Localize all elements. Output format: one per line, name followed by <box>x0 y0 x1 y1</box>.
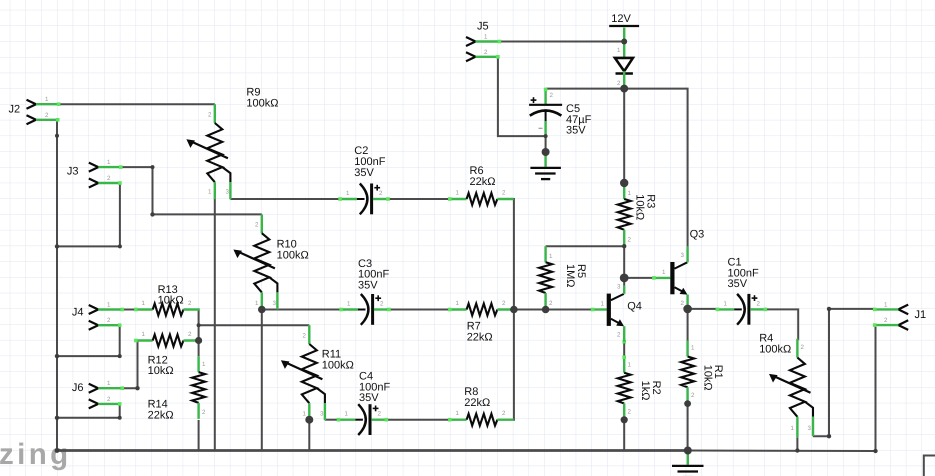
wire R9 pin3 to C2 pin1 <box>230 198 340 200</box>
wire tee to R11 pin2 <box>199 324 310 326</box>
joint J3 corner <box>151 165 155 169</box>
resistor R12 10k <box>134 331 200 377</box>
ground (C5) <box>530 152 561 179</box>
junction R11 pin1 <box>305 416 313 424</box>
svg-text:100kΩ: 100kΩ <box>246 97 278 109</box>
joint R4 pin1 bus <box>795 448 799 452</box>
svg-text:2: 2 <box>379 190 383 197</box>
wire Q4 emitter to R2 pin1 <box>623 342 625 357</box>
svg-text:2: 2 <box>628 409 632 416</box>
svg-text:2: 2 <box>107 396 111 403</box>
wire R11 pin1 down to ground bus <box>308 420 310 451</box>
svg-text:1: 1 <box>107 380 111 387</box>
wire Q4 collector to Q3 base <box>624 277 654 279</box>
junction R10 pin1 <box>258 306 266 314</box>
svg-text:1: 1 <box>484 34 488 41</box>
svg-text:1: 1 <box>601 301 605 308</box>
resistor R2 1k <box>618 340 662 420</box>
transistor Q3 <box>652 229 704 309</box>
wire R4 pin1 to ground bus <box>796 438 798 451</box>
svg-text:2: 2 <box>502 300 506 307</box>
svg-text:1: 1 <box>142 331 146 338</box>
connector J1 <box>873 301 926 330</box>
wire diode cathode to C5 and Q3 collector <box>546 89 688 247</box>
svg-text:1: 1 <box>45 96 49 103</box>
resistor R5 1M <box>539 246 587 309</box>
potentiometer R4 100k <box>759 333 813 438</box>
svg-text:1: 1 <box>724 300 728 307</box>
svg-text:2: 2 <box>208 112 212 119</box>
joint left rail c <box>55 354 59 358</box>
connector J3 <box>67 159 123 187</box>
resistor R14 22k <box>148 356 206 421</box>
svg-text:1: 1 <box>662 269 666 276</box>
joint J1 pin1 corner <box>827 307 831 311</box>
wire C3 pin2 to R7 pin1 <box>389 309 451 311</box>
wire R6 pin2 down to R8 pin2 <box>512 199 515 420</box>
wire J3 pin1 to bend <box>121 167 153 214</box>
resistor R1 10k <box>681 341 724 404</box>
junction R3 top <box>620 179 628 187</box>
joint R1 pin2 <box>684 400 691 407</box>
svg-text:2: 2 <box>45 112 49 119</box>
svg-text:J3: J3 <box>67 166 79 178</box>
capacitor C3 100nF <box>339 258 391 325</box>
svg-text:2: 2 <box>107 175 111 182</box>
joint J3 bend <box>150 212 154 216</box>
joint J6 pin1 <box>135 386 139 390</box>
wire J4 pin1 to R13 pin1 <box>122 309 136 311</box>
svg-text:1: 1 <box>202 361 206 368</box>
svg-text:22kΩ: 22kΩ <box>464 397 490 409</box>
wire J5 pin1 to 12V rail <box>499 41 624 43</box>
junction Q4 collector / Q3 base <box>620 274 629 283</box>
wire R14 pin2 to ground bus <box>198 420 200 451</box>
wire C1 pin2 to R4 pin2 <box>765 309 798 340</box>
wire J3 pin2 to left rail <box>57 183 120 246</box>
joint R4 pin3 corner <box>827 434 831 438</box>
transistor Q4 <box>591 278 642 342</box>
svg-text:2: 2 <box>691 392 695 399</box>
svg-text:10kΩ: 10kΩ <box>148 365 174 377</box>
potentiometer R11 100k <box>281 325 354 420</box>
capacitor C2 100nF <box>338 145 390 214</box>
svg-text:1: 1 <box>346 190 350 197</box>
joint R11 tee <box>197 323 201 327</box>
joint J4 rail <box>118 354 122 358</box>
svg-text:Q4: Q4 <box>627 301 642 313</box>
svg-text:1: 1 <box>208 189 212 196</box>
wire R10 junction to C3 pin1 <box>262 309 341 311</box>
svg-text:1: 1 <box>628 362 632 369</box>
wire J4 pin2 to left rail <box>57 325 120 356</box>
junction R5 pin2 <box>542 306 550 314</box>
resistor R6 22k <box>448 165 514 205</box>
connector J5 <box>466 21 501 62</box>
svg-text:1: 1 <box>347 301 351 308</box>
svg-text:1: 1 <box>617 47 621 54</box>
connector J2 <box>9 96 61 124</box>
wire R3 pin2 to Q4 collector <box>623 246 625 278</box>
svg-text:100kΩ: 100kΩ <box>322 359 354 371</box>
svg-text:2: 2 <box>255 222 259 229</box>
ground bus wire <box>57 449 688 452</box>
joint J6 pin2 <box>118 416 122 420</box>
joint left rail a <box>55 134 59 138</box>
wire J2 pin1 to R9 pin2 <box>59 103 215 105</box>
wire J6 pin2 to left rail <box>57 404 120 418</box>
svg-text:1: 1 <box>107 159 111 166</box>
potentiometer R9 100k <box>186 87 278 200</box>
svg-text:2: 2 <box>380 301 384 308</box>
resistor R3 10k <box>618 183 657 246</box>
potentiometer R10 100k <box>233 214 308 309</box>
svg-text:1: 1 <box>303 411 307 418</box>
wire R1 pin2 to ground bus <box>687 404 689 451</box>
wire R9 pin1 down to ground bus <box>214 199 216 451</box>
resistor R7 22k <box>448 300 514 343</box>
svg-text:12V: 12V <box>611 13 631 25</box>
wire R7 pin2 to Q4 base <box>511 309 593 311</box>
joint C5 pin1 / J5 wire <box>544 134 548 138</box>
svg-text:2: 2 <box>617 80 621 87</box>
svg-text:22kΩ: 22kΩ <box>470 176 496 188</box>
svg-text:2: 2 <box>378 411 382 418</box>
svg-text:35V: 35V <box>566 125 586 137</box>
wire R2 pin2 to ground bus <box>623 420 625 451</box>
svg-text:2: 2 <box>757 300 761 307</box>
wire R4 pin3 up to J1 pin1 <box>813 309 875 436</box>
svg-text:1: 1 <box>628 190 632 197</box>
svg-text:100kΩ: 100kΩ <box>277 249 309 261</box>
svg-text:2: 2 <box>884 317 888 324</box>
junction R12 pin2 <box>195 337 202 344</box>
svg-text:3: 3 <box>617 284 621 291</box>
junction R6-R8 rail / R7 <box>510 306 518 314</box>
wire C4 pin2 to R8 pin1 <box>386 419 449 421</box>
svg-text:3: 3 <box>273 300 277 307</box>
svg-text:J6: J6 <box>72 382 84 394</box>
resistor R8 22k <box>448 386 514 426</box>
wire bend to R10 pin2 <box>153 213 262 215</box>
capacitor C5 47uF <box>529 88 591 137</box>
svg-text:2: 2 <box>107 317 111 324</box>
junction C5 minus / ground <box>542 148 550 156</box>
svg-text:2: 2 <box>188 300 192 307</box>
junction 12V / J5 <box>621 39 627 45</box>
wire diode cathode down to R3 pin1 <box>623 89 625 183</box>
svg-text:3: 3 <box>320 411 324 418</box>
wire R5 pin1 to R3 pin2 <box>546 245 625 247</box>
svg-text:Q3: Q3 <box>690 229 705 241</box>
svg-text:1: 1 <box>456 300 460 307</box>
connector J6 <box>72 380 124 408</box>
wire R13 pin2 down to R12 pin2 <box>198 310 200 341</box>
svg-text:100kΩ: 100kΩ <box>759 343 791 355</box>
joint R3 pin2 / R5 wire <box>622 244 626 248</box>
wire C2 pin2 to R6 pin1 <box>388 198 450 200</box>
connector J4 <box>72 302 124 330</box>
svg-text:1: 1 <box>884 301 888 308</box>
svg-text:35V: 35V <box>354 167 374 179</box>
wire J1 pin2 down to ground bus <box>875 325 877 451</box>
joint bus right end <box>873 449 877 453</box>
svg-text:10kΩ: 10kΩ <box>158 295 184 307</box>
svg-text:3: 3 <box>681 252 685 259</box>
svg-text:1: 1 <box>456 410 460 417</box>
junction diode cathode rail <box>620 85 628 93</box>
joint J3 rail <box>118 244 122 248</box>
joint left rail b <box>55 244 59 248</box>
svg-text:1: 1 <box>142 300 146 307</box>
svg-text:2: 2 <box>550 92 554 99</box>
svg-text:1: 1 <box>791 425 795 432</box>
svg-text:2: 2 <box>202 409 206 416</box>
svg-text:22kΩ: 22kΩ <box>467 331 493 343</box>
svg-text:2: 2 <box>681 300 685 307</box>
wire J6 pin1 to R12 pin1 <box>122 341 137 389</box>
svg-text:22kΩ: 22kΩ <box>148 409 174 421</box>
capacitor C1 100nF <box>716 257 768 325</box>
wire R10 pin1 down to ground bus <box>261 310 263 451</box>
svg-text:1: 1 <box>549 253 553 260</box>
svg-text:1: 1 <box>456 190 460 197</box>
svg-text:2: 2 <box>628 237 632 244</box>
svg-text:1: 1 <box>345 411 349 418</box>
svg-text:J1: J1 <box>915 309 927 321</box>
svg-text:2: 2 <box>188 331 192 338</box>
junction ground bus <box>684 447 692 455</box>
svg-text:35V: 35V <box>728 278 748 290</box>
power symbol 12V <box>609 13 639 42</box>
junction Q3 emitter <box>683 305 692 314</box>
svg-text:3: 3 <box>226 189 230 196</box>
resistor R13 10k <box>134 284 200 316</box>
svg-text:2: 2 <box>502 190 506 197</box>
wire Q3 emitter to C1 pin1 <box>688 308 718 310</box>
svg-text:35V: 35V <box>359 392 379 404</box>
svg-text:zing: zing <box>0 438 72 471</box>
wire J5 pin2 to C5 pin1 <box>498 57 546 152</box>
diode D1 <box>615 42 633 89</box>
ground (main bus) <box>672 451 704 476</box>
wire R12/R13 junction to R14 <box>198 341 200 357</box>
svg-text:1: 1 <box>691 345 695 352</box>
svg-text:2: 2 <box>502 410 506 417</box>
svg-text:35V: 35V <box>358 280 378 292</box>
joint left rail d <box>55 416 59 420</box>
svg-text:1: 1 <box>107 302 111 309</box>
svg-text:J5: J5 <box>477 21 489 33</box>
svg-text:2: 2 <box>801 344 805 351</box>
ground bus wire right <box>688 450 876 453</box>
svg-text:1: 1 <box>255 300 259 307</box>
wire R11 pin3 to C4 pin1 <box>325 419 339 421</box>
svg-text:J4: J4 <box>72 307 84 319</box>
wire bottom right corner <box>924 456 935 476</box>
joint R2 pin2 <box>621 416 628 423</box>
capacitor C4 100nF <box>337 371 391 436</box>
svg-text:2: 2 <box>484 49 488 56</box>
joint left rail bus <box>55 448 60 453</box>
svg-text:J2: J2 <box>9 104 21 116</box>
svg-text:2: 2 <box>303 333 307 340</box>
svg-text:2: 2 <box>549 300 553 307</box>
svg-text:3: 3 <box>808 425 812 432</box>
svg-text:2: 2 <box>617 332 621 339</box>
wire J2 pin2 down left rail <box>56 120 59 451</box>
wire Q3 emitter to R1 pin1 <box>687 309 689 341</box>
